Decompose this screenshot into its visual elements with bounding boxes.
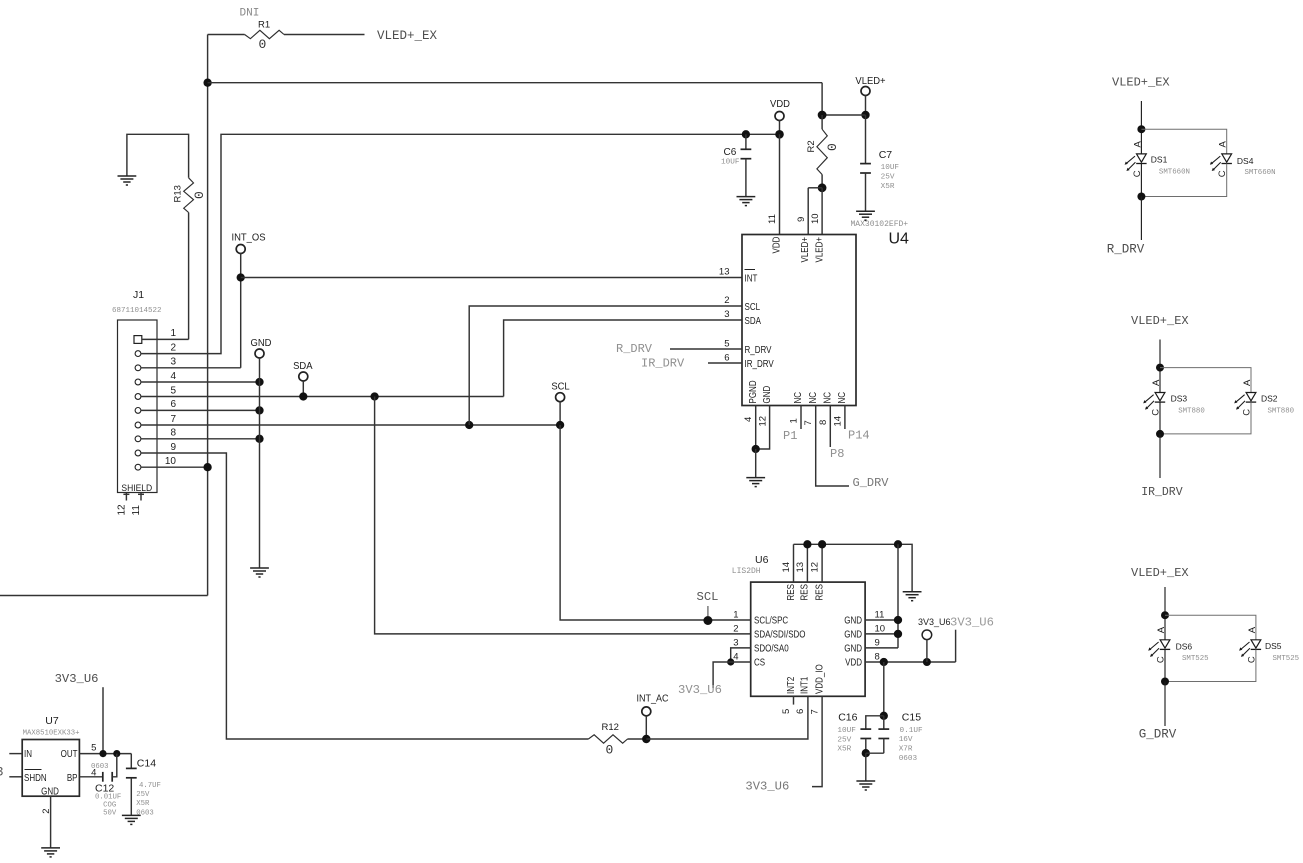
wire: VLED+ stub — [865, 95, 867, 115]
svg-text:1: 1 — [733, 610, 738, 621]
wire: GND column — [259, 358, 261, 568]
wire: OUT to C14 — [79, 753, 131, 755]
svg-text:R_DRV: R_DRV — [1107, 243, 1145, 257]
wire: U6 pin5 INT2 stub — [793, 696, 795, 704]
svg-text:GND: GND — [251, 338, 272, 350]
wire: 3V3_U6 to OUT — [102, 687, 104, 753]
J1 pins 2-10 circles — [135, 351, 141, 470]
wire: VDD to caps — [883, 662, 885, 716]
ground for C16 C15 — [856, 781, 875, 790]
capacitor C16 — [860, 729, 871, 738]
node SCL label junction — [703, 616, 712, 625]
svg-text:2: 2 — [724, 295, 729, 306]
node OUT junction 3V3 column — [99, 750, 106, 757]
capacitor C15 — [878, 716, 889, 753]
svg-text:10: 10 — [875, 624, 886, 635]
wire: VLED+ to R2 top — [822, 114, 865, 116]
svg-text:2: 2 — [41, 809, 52, 814]
svg-text:10UF: 10UF — [837, 727, 856, 735]
LED DS4 — [1210, 154, 1232, 171]
node SCL branch junction — [465, 421, 473, 429]
wire: R1 left net vertical down left column — [207, 35, 209, 596]
node J1 pin8 GND junction — [255, 435, 263, 443]
node VDD C16 junction — [880, 658, 888, 666]
wire: U6 GND pins to column — [865, 620, 898, 648]
node block2 bottom junction — [1156, 430, 1164, 438]
wire: U4 NC pin7 stub to G_DRV — [816, 406, 849, 487]
wire: DS3 cathode down — [1159, 402, 1161, 434]
svg-text:VLED+_EX: VLED+_EX — [1131, 314, 1189, 328]
svg-text:9: 9 — [796, 217, 807, 222]
svg-text:2: 2 — [170, 342, 176, 353]
svg-text:INT: INT — [745, 273, 758, 284]
node caps top junction — [880, 712, 888, 720]
port INT_AC — [642, 707, 651, 716]
node SDA stub junction — [299, 392, 307, 400]
ground for C6 — [737, 197, 756, 206]
capacitor C7 — [865, 115, 867, 164]
wire: U6 pin7 VDD_IO to 3V3_U6 — [812, 696, 822, 786]
ground for R13 — [118, 176, 137, 185]
svg-text:11: 11 — [767, 214, 778, 224]
ground for C7 — [856, 211, 875, 220]
wire: C12 to OUT junction — [112, 754, 117, 777]
svg-text:NC: NC — [792, 392, 803, 404]
wire: 3V3_U6 port stub — [926, 640, 928, 662]
svg-text:VLED+: VLED+ — [799, 237, 810, 263]
svg-text:11: 11 — [131, 505, 142, 516]
wire: BP to C12 — [79, 776, 102, 778]
node block2 top junction — [1156, 364, 1164, 372]
wire: IN stub — [9, 753, 22, 755]
wire: VDD up branch — [955, 630, 957, 662]
svg-text:INT1: INT1 — [799, 677, 810, 694]
wire: block1 loop to DS4 — [1141, 129, 1226, 154]
svg-text:A: A — [1151, 379, 1162, 386]
svg-text:SHIELD: SHIELD — [121, 483, 152, 494]
svg-text:4: 4 — [743, 417, 754, 422]
wire: SCL port stub — [559, 401, 561, 425]
svg-text:NC: NC — [822, 392, 833, 404]
node block1 bottom junction — [1137, 193, 1145, 201]
svg-text:G_DRV: G_DRV — [853, 476, 890, 490]
wire: U6 pin4 CS to 3V3_U6 label — [713, 662, 751, 688]
svg-text:RES: RES — [785, 584, 796, 600]
node GND pin11 junction — [894, 616, 902, 624]
svg-text:C16: C16 — [838, 712, 857, 724]
svg-text:VDD: VDD — [845, 657, 862, 668]
svg-text:SMT880: SMT880 — [1178, 408, 1205, 416]
svg-text:X7R: X7R — [899, 746, 913, 754]
svg-text:SCL: SCL — [551, 381, 570, 393]
wire: J1 pin5 SDA net horizontal — [141, 396, 504, 398]
svg-text:DNI: DNI — [240, 8, 260, 20]
svg-text:DS1: DS1 — [1151, 155, 1168, 165]
wire: INT_OS vertical to J1 pin3 — [240, 253, 242, 368]
LED DS1 — [1125, 154, 1147, 171]
svg-text:2: 2 — [733, 624, 738, 635]
svg-text:12: 12 — [757, 416, 768, 427]
svg-text:R_DRV: R_DRV — [745, 344, 772, 355]
svg-text:NC: NC — [807, 392, 818, 404]
svg-text:A: A — [1218, 141, 1229, 148]
wire: horizontal VLED+ feed to R2 top — [208, 82, 823, 84]
port GND — [255, 349, 264, 358]
U7 pin names — [24, 748, 78, 796]
svg-text:PGND: PGND — [747, 380, 758, 404]
svg-text:12: 12 — [810, 562, 821, 573]
port VLED+ — [861, 87, 870, 96]
node block3 top junction — [1161, 611, 1169, 619]
svg-text:10UF: 10UF — [721, 159, 740, 167]
svg-text:0: 0 — [259, 37, 267, 52]
svg-text:IR_DRV: IR_DRV — [1141, 486, 1183, 499]
wire: J1 pin4 to GND column — [141, 381, 260, 383]
node VDD rail junction — [775, 130, 784, 139]
wire: block1 stem top — [1140, 101, 1142, 154]
wire: GND column at U6 — [897, 544, 899, 648]
wire: SDA port stub — [302, 380, 304, 396]
svg-text:C15: C15 — [902, 712, 921, 724]
svg-text:MAX8510EXK33+: MAX8510EXK33+ — [23, 730, 80, 738]
U6 top pin names RES rotated — [785, 584, 825, 600]
wire: U6 top bus to ground — [794, 544, 913, 591]
svg-text:SDA/SDI/SDO: SDA/SDI/SDO — [754, 629, 806, 640]
values of C15 — [899, 727, 923, 763]
svg-text:3V3_U6: 3V3_U6 — [950, 616, 994, 630]
svg-text:3: 3 — [170, 357, 176, 368]
svg-text:DS4: DS4 — [1237, 156, 1254, 166]
svg-text:P14: P14 — [848, 429, 870, 443]
U6 bottom pin numbers rotated — [781, 709, 821, 715]
svg-text:0603: 0603 — [899, 755, 918, 763]
connector J1 body — [118, 320, 158, 493]
svg-text:5: 5 — [724, 339, 729, 350]
svg-text:8: 8 — [170, 428, 176, 439]
wire: U4 NC pin14 stub — [844, 406, 846, 430]
svg-text:R2: R2 — [806, 140, 817, 152]
wire: J1 pin1 to R13 column — [142, 338, 189, 340]
svg-text:0.01UF: 0.01UF — [95, 794, 121, 802]
values of C7 — [881, 164, 900, 191]
node block1 top junction — [1137, 125, 1145, 133]
svg-text:6: 6 — [170, 399, 176, 410]
ground for U7 — [41, 848, 60, 857]
svg-text:5: 5 — [170, 385, 176, 396]
IC U4 MAX30102 body — [742, 235, 856, 406]
svg-text:SDA: SDA — [745, 315, 762, 326]
wire: SCL label stub — [707, 606, 709, 616]
wire: U7 GND pin down — [50, 796, 52, 848]
svg-text:DS2: DS2 — [1261, 394, 1278, 404]
U4 left pin numbers — [719, 267, 730, 364]
values of C16 — [837, 727, 856, 754]
node bus junction pin12 — [818, 540, 826, 548]
node bus junction GND column — [894, 540, 902, 548]
wire: C16 top link — [866, 716, 884, 729]
capacitor C14 — [126, 754, 137, 816]
svg-text:INT_AC: INT_AC — [637, 693, 669, 705]
wire: DS6 cathode down — [1164, 649, 1166, 681]
port SCL — [556, 393, 565, 402]
U6 left pin numbers — [733, 610, 738, 663]
node J1 pin10 junction — [203, 463, 211, 471]
node OUT junction C12 branch — [113, 750, 120, 757]
node GND pin10 junction — [894, 630, 902, 638]
wire: SDA up to U4 pin3 — [504, 320, 742, 397]
svg-text:MAX30102EFD+: MAX30102EFD+ — [851, 220, 909, 229]
svg-text:25V: 25V — [136, 791, 150, 799]
svg-text:4.7UF: 4.7UF — [139, 782, 161, 790]
svg-text:3V3_U6: 3V3_U6 — [678, 683, 722, 697]
svg-text:25V: 25V — [881, 174, 895, 182]
svg-text:G_DRV: G_DRV — [1139, 728, 1177, 742]
wire: U4 NC pin8 stub — [829, 406, 831, 448]
svg-text:IN: IN — [24, 748, 32, 759]
svg-text:X5R: X5R — [136, 800, 150, 808]
wire: R2 bottom to U4 pins 9,10 — [808, 187, 822, 189]
svg-text:VDD_IO: VDD_IO — [814, 664, 825, 694]
svg-text:SCL/SPC: SCL/SPC — [754, 615, 789, 626]
wire: J1 pin3 to INT_OS column — [141, 367, 241, 369]
wire: U6 pin3 SDO/SA0 tie — [731, 648, 751, 662]
U6 top pin wires RES — [794, 544, 823, 582]
svg-text:3: 3 — [0, 765, 4, 780]
svg-text:R13: R13 — [173, 185, 184, 202]
svg-text:1: 1 — [789, 418, 800, 423]
svg-text:0.1UF: 0.1UF — [900, 727, 923, 735]
svg-text:10: 10 — [810, 213, 821, 224]
svg-text:6: 6 — [724, 353, 729, 364]
svg-text:1: 1 — [170, 328, 176, 339]
svg-text:VLED+_EX: VLED+_EX — [377, 29, 438, 43]
wire: block2 stem top — [1159, 340, 1161, 393]
wire: off-page stub bottom of left column — [0, 595, 208, 597]
svg-text:A: A — [1242, 379, 1253, 386]
svg-text:3V3_U6: 3V3_U6 — [745, 780, 789, 794]
U6 left pin names — [754, 615, 806, 668]
ground for U4 — [746, 478, 765, 487]
svg-text:4: 4 — [170, 371, 176, 382]
svg-text:DS6: DS6 — [1176, 642, 1193, 652]
svg-text:IR_DRV: IR_DRV — [641, 357, 685, 371]
wire: U4 GND pin12 down — [756, 406, 770, 450]
wire: C15 bottom link — [866, 752, 884, 754]
svg-text:C6: C6 — [724, 147, 737, 158]
resistor R2 — [817, 115, 827, 188]
svg-text:U6: U6 — [755, 554, 769, 566]
wire: R13 bottom to J1 pin1 — [188, 213, 190, 340]
svg-text:3V3_U6: 3V3_U6 — [55, 672, 99, 686]
svg-text:R_DRV: R_DRV — [616, 342, 653, 356]
svg-text:P8: P8 — [830, 447, 844, 461]
LED DS2 — [1234, 393, 1256, 410]
svg-text:RES: RES — [799, 584, 810, 600]
svg-text:5: 5 — [91, 743, 96, 754]
svg-text:GND: GND — [844, 629, 862, 640]
node VDD 3V3 junction — [923, 658, 931, 666]
svg-text:INT2: INT2 — [785, 677, 796, 694]
node caps bottom junction — [862, 749, 870, 757]
svg-text:GND: GND — [844, 643, 862, 654]
svg-text:8: 8 — [818, 420, 829, 425]
svg-text:DS3: DS3 — [1171, 394, 1188, 404]
svg-text:VDD: VDD — [770, 236, 781, 253]
svg-text:C7: C7 — [879, 149, 893, 161]
svg-text:7: 7 — [803, 420, 814, 425]
svg-text:COG: COG — [103, 802, 116, 810]
wire: U4 PGND pin4 down — [755, 406, 757, 450]
node C6 junction — [742, 130, 750, 138]
svg-text:A: A — [1156, 626, 1167, 633]
wire: C16 bottom — [865, 739, 867, 754]
port SDA — [299, 372, 308, 381]
svg-text:U7: U7 — [45, 715, 59, 727]
port 3V3_U6 at U6 — [922, 630, 932, 640]
svg-text:16V: 16V — [899, 736, 913, 744]
svg-text:5: 5 — [781, 709, 792, 714]
wire: block2 loop to DS2 — [1160, 368, 1251, 393]
wire: J1 pin10 to left column — [141, 466, 208, 468]
U4 bottom pin numbers rotated — [743, 416, 843, 427]
resistor R12 — [588, 735, 646, 743]
J1 shield stubs pins 12 11 — [123, 493, 144, 501]
J1 pin numbers 1-10 — [165, 328, 177, 467]
wire: SHDN stub — [9, 776, 22, 778]
svg-text:0603: 0603 — [136, 810, 154, 818]
svg-text:SHDN: SHDN — [24, 772, 47, 783]
svg-text:7: 7 — [170, 414, 176, 425]
wire: J1 pin9 to INT_AC/R12 row — [141, 453, 589, 739]
U6 right pin names — [844, 615, 862, 668]
svg-text:J1: J1 — [133, 289, 144, 301]
wire: VDD pin11 vertical — [779, 134, 781, 234]
svg-text:8: 8 — [875, 652, 880, 663]
wire: DS5 cathode loop return — [1165, 649, 1256, 681]
svg-text:A: A — [1247, 626, 1258, 633]
svg-text:X5R: X5R — [837, 746, 851, 754]
values of C12 — [95, 794, 121, 818]
LED DS3 — [1143, 393, 1165, 410]
capacitor C6 — [745, 134, 747, 149]
svg-text:GND: GND — [41, 786, 59, 797]
U4 top pin names rotated — [770, 236, 824, 262]
svg-text:7: 7 — [810, 709, 821, 714]
node SCL stub junction — [556, 421, 564, 429]
svg-text:14: 14 — [781, 562, 792, 573]
svg-text:10UF: 10UF — [881, 164, 900, 172]
wire: block1 stem bottom — [1140, 197, 1142, 241]
svg-text:10: 10 — [165, 456, 177, 467]
U6 right pin numbers — [875, 610, 886, 663]
svg-text:SMT525: SMT525 — [1182, 655, 1209, 663]
wire: SCL down to U6 pin1 — [560, 425, 751, 620]
port INT_OS — [236, 245, 245, 254]
J1 pin1 square pad — [134, 336, 142, 344]
ground for C14 — [122, 815, 141, 824]
svg-text:9: 9 — [875, 638, 880, 649]
node PGND GND junction — [752, 445, 760, 453]
svg-text:BP: BP — [67, 772, 78, 783]
U4 top pin numbers rotated — [767, 213, 821, 224]
svg-text:X5R: X5R — [881, 183, 895, 191]
node SDA branch to U6 junction — [370, 392, 378, 400]
svg-text:11: 11 — [875, 610, 885, 621]
ground for U6 RES bus — [903, 592, 922, 601]
wire: SCL up to U4 pin2 — [469, 306, 742, 425]
svg-text:C14: C14 — [137, 758, 156, 770]
node INT_OS to U4 INT junction — [237, 273, 245, 281]
wire: VDD stub to rail — [779, 120, 781, 134]
node junction R1 column to VLED+ feed — [203, 79, 211, 87]
U4 bottom pin names rotated — [747, 380, 847, 404]
svg-text:A: A — [1132, 141, 1143, 148]
capacitor C12 — [103, 772, 112, 782]
wire: INT net to U4 pin13 — [241, 277, 742, 279]
svg-text:SDA: SDA — [293, 361, 313, 373]
wire: PGND junction to ground — [755, 449, 757, 478]
svg-text:13: 13 — [795, 562, 806, 573]
svg-text:0: 0 — [606, 743, 614, 758]
svg-text:3: 3 — [724, 309, 729, 320]
svg-text:9: 9 — [170, 442, 176, 453]
wire: INT_AC stub — [645, 715, 647, 739]
wire: block2 stem bottom — [1159, 434, 1161, 478]
svg-text:P1: P1 — [783, 429, 797, 443]
svg-text:3V3_U6: 3V3_U6 — [918, 617, 951, 627]
svg-text:VLED+: VLED+ — [813, 237, 824, 263]
svg-text:GND: GND — [761, 385, 772, 403]
wire: R13 top to ground — [127, 134, 189, 178]
wire: DS1 cathode down — [1140, 164, 1142, 197]
wire: DS2 cathode loop return — [1160, 402, 1251, 434]
svg-text:3: 3 — [733, 638, 738, 649]
U4 left pin names — [745, 270, 774, 370]
node R2 top junction — [818, 111, 827, 120]
node block3 bottom junction — [1161, 678, 1169, 686]
ground for GND net — [250, 568, 269, 577]
svg-text:50V: 50V — [103, 810, 117, 818]
wire: INT_AC row to U6 pin6 — [646, 696, 808, 739]
wire: J1 pin8 to GND column — [141, 438, 260, 440]
IC U7 MAX8510 body — [22, 740, 79, 797]
svg-text:VLED+_EX: VLED+_EX — [1112, 76, 1170, 90]
wire: J1 pin2 to VDD rail — [141, 134, 780, 353]
IC U6 LIS2DH body — [751, 582, 865, 696]
svg-text:14: 14 — [832, 416, 843, 427]
svg-text:VLED+: VLED+ — [855, 76, 885, 88]
values of C14 — [136, 782, 161, 818]
svg-text:13: 13 — [719, 267, 730, 278]
svg-text:R12: R12 — [602, 722, 619, 733]
U6 top pin numbers rotated — [781, 562, 821, 573]
svg-text:U4: U4 — [889, 231, 910, 248]
svg-text:68711014522: 68711014522 — [112, 307, 162, 315]
svg-text:IR_DRV: IR_DRV — [745, 358, 774, 369]
resistor R13 — [184, 178, 194, 213]
wire: R_DRV to U4 pin5 — [670, 348, 742, 350]
U6 bottom pin names rotated — [785, 664, 825, 694]
resistor R1 — [208, 30, 365, 38]
wire: J1 pin7 SCL net horizontal — [141, 424, 560, 426]
wire: U4 NC pin1 stub — [800, 406, 802, 430]
svg-text:25V: 25V — [837, 736, 851, 744]
svg-text:SCL: SCL — [697, 590, 719, 604]
wire: IR_DRV to U4 pin6 — [708, 362, 742, 364]
svg-text:INT_OS: INT_OS — [231, 232, 265, 244]
node INT_AC junction — [642, 735, 650, 743]
wire: caps to ground — [865, 753, 867, 781]
